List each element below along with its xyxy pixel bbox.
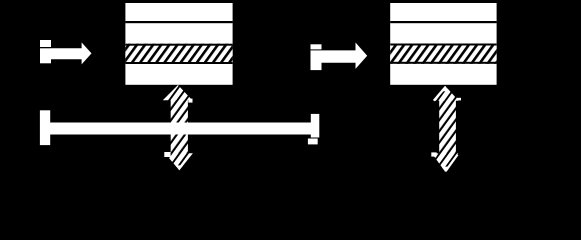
left stack hatched active layer xyxy=(125,44,232,64)
right emission arrow up head xyxy=(433,86,458,101)
left emission arrow down head xyxy=(165,153,193,170)
right arrow apex highlight xyxy=(441,86,450,91)
right input pump arrow tail tab xyxy=(311,44,322,49)
left input pump arrow tail tab xyxy=(40,40,51,47)
left arrow lower-left corner knob xyxy=(164,152,170,157)
horizontal cavity bar right lower tab xyxy=(308,139,318,145)
horizontal cavity bar xyxy=(49,123,311,135)
left emission arrow up head xyxy=(163,85,193,100)
horizontal cavity bar right end cap xyxy=(311,114,320,138)
left arrow upper-right corner knob xyxy=(188,99,192,103)
left emission arrow shaft xyxy=(171,100,188,154)
right arrow lower-left corner knob xyxy=(431,152,436,156)
horizontal cavity bar left end cap xyxy=(40,110,50,145)
right input pump arrow tail bar xyxy=(311,50,322,70)
right arrow down-head right edge stripe xyxy=(446,155,458,172)
right input pump arrow shaft and head xyxy=(322,43,368,69)
right stack hatched layer top border xyxy=(390,44,496,46)
left stack hatched layer bottom border xyxy=(125,62,232,64)
right arrow up-head left edge stripe xyxy=(434,87,446,101)
left layer stack body xyxy=(125,3,232,85)
right emission arrow shaft xyxy=(439,100,456,154)
left arrow bottom apex highlight xyxy=(175,165,183,170)
right arrow bottom apex highlight xyxy=(442,167,450,172)
left input pump arrow tail bar xyxy=(40,48,51,63)
right stack divider line xyxy=(390,21,496,23)
left stack divider line xyxy=(125,21,232,23)
left stack hatched layer top border xyxy=(125,44,232,46)
right stack hatched layer bottom border xyxy=(390,62,496,64)
right layer stack body xyxy=(390,3,496,85)
right arrow upper-right corner knob xyxy=(457,98,462,101)
right stack hatched active layer xyxy=(390,44,496,64)
left input pump arrow shaft and head xyxy=(51,42,92,64)
right emission arrow down head xyxy=(432,153,458,172)
